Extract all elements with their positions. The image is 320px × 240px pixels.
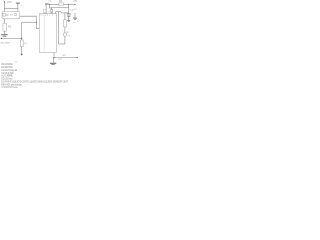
svg-text:C2: C2 [48,1,52,3]
svg-text:R4: R4 [59,1,63,3]
svg-text:GND: GND [72,9,77,11]
svg-text:+5V: +5V [7,0,12,4]
svg-text:OUT: OUT [62,55,67,57]
svg-text:AN RED/GRN state: AN RED/GRN state [1,86,18,89]
svg-text:+5V: +5V [73,1,78,3]
svg-text:+5V: +5V [14,62,18,64]
svg-text:R1: R1 [8,25,12,28]
svg-text:D1: D1 [24,43,28,45]
svg-text:LN1_SEN: LN1_SEN [1,42,10,44]
svg-text:D2: D2 [68,35,70,37]
svg-text:GND: GND [58,59,63,61]
svg-text:C1: C1 [21,6,25,8]
